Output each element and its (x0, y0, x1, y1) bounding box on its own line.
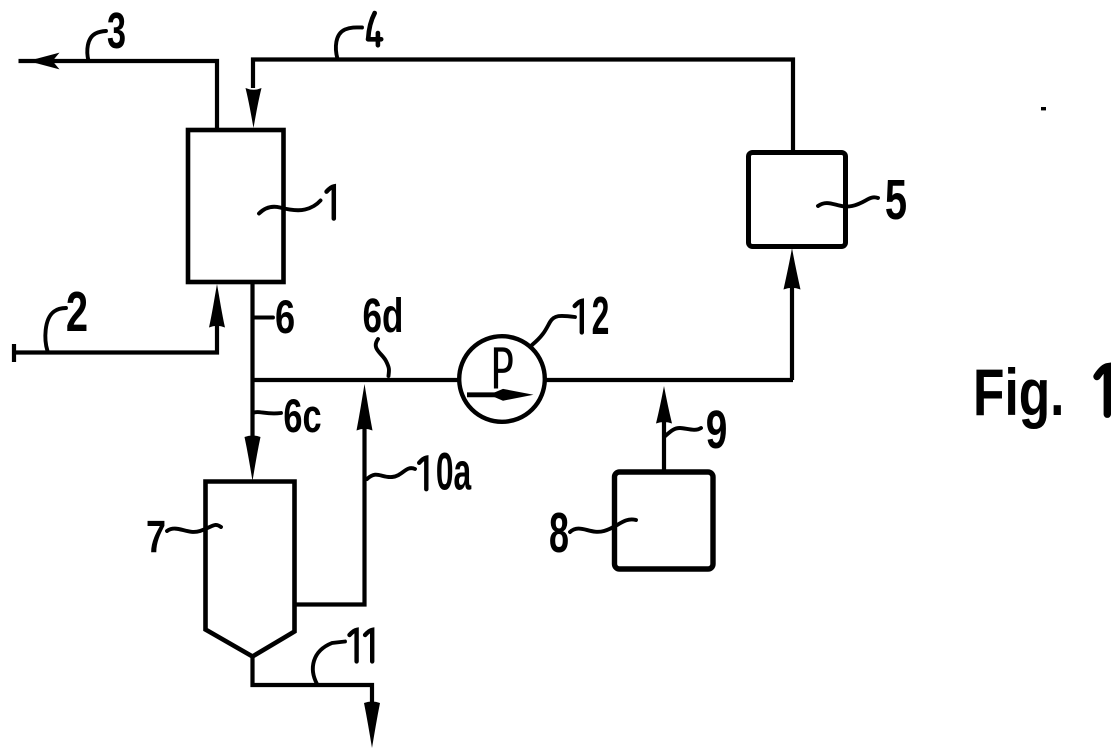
svg-text:3: 3 (107, 3, 126, 59)
svg-text:6c: 6c (283, 390, 321, 443)
svg-text:Fig.: Fig. (973, 355, 1064, 430)
svg-text:2: 2 (592, 286, 610, 346)
svg-text:5: 5 (885, 168, 907, 232)
svg-text:7: 7 (146, 511, 166, 562)
svg-text:8: 8 (549, 502, 569, 565)
svg-text:6: 6 (275, 290, 295, 343)
svg-text:6d: 6d (363, 289, 404, 343)
svg-text:0a: 0a (436, 442, 472, 501)
svg-text:9: 9 (706, 399, 728, 460)
svg-text:2: 2 (66, 280, 88, 344)
